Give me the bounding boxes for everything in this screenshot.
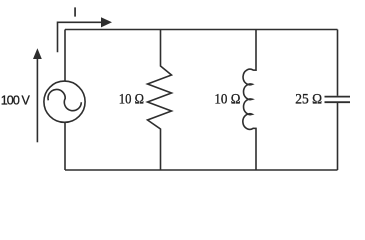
- svg-text:100 V: 100 V: [1, 94, 31, 108]
- svg-text:I: I: [73, 5, 77, 20]
- svg-text:25 Ω: 25 Ω: [295, 92, 322, 108]
- svg-text:10 Ω: 10 Ω: [119, 92, 144, 108]
- svg-text:10 Ω: 10 Ω: [214, 92, 240, 108]
